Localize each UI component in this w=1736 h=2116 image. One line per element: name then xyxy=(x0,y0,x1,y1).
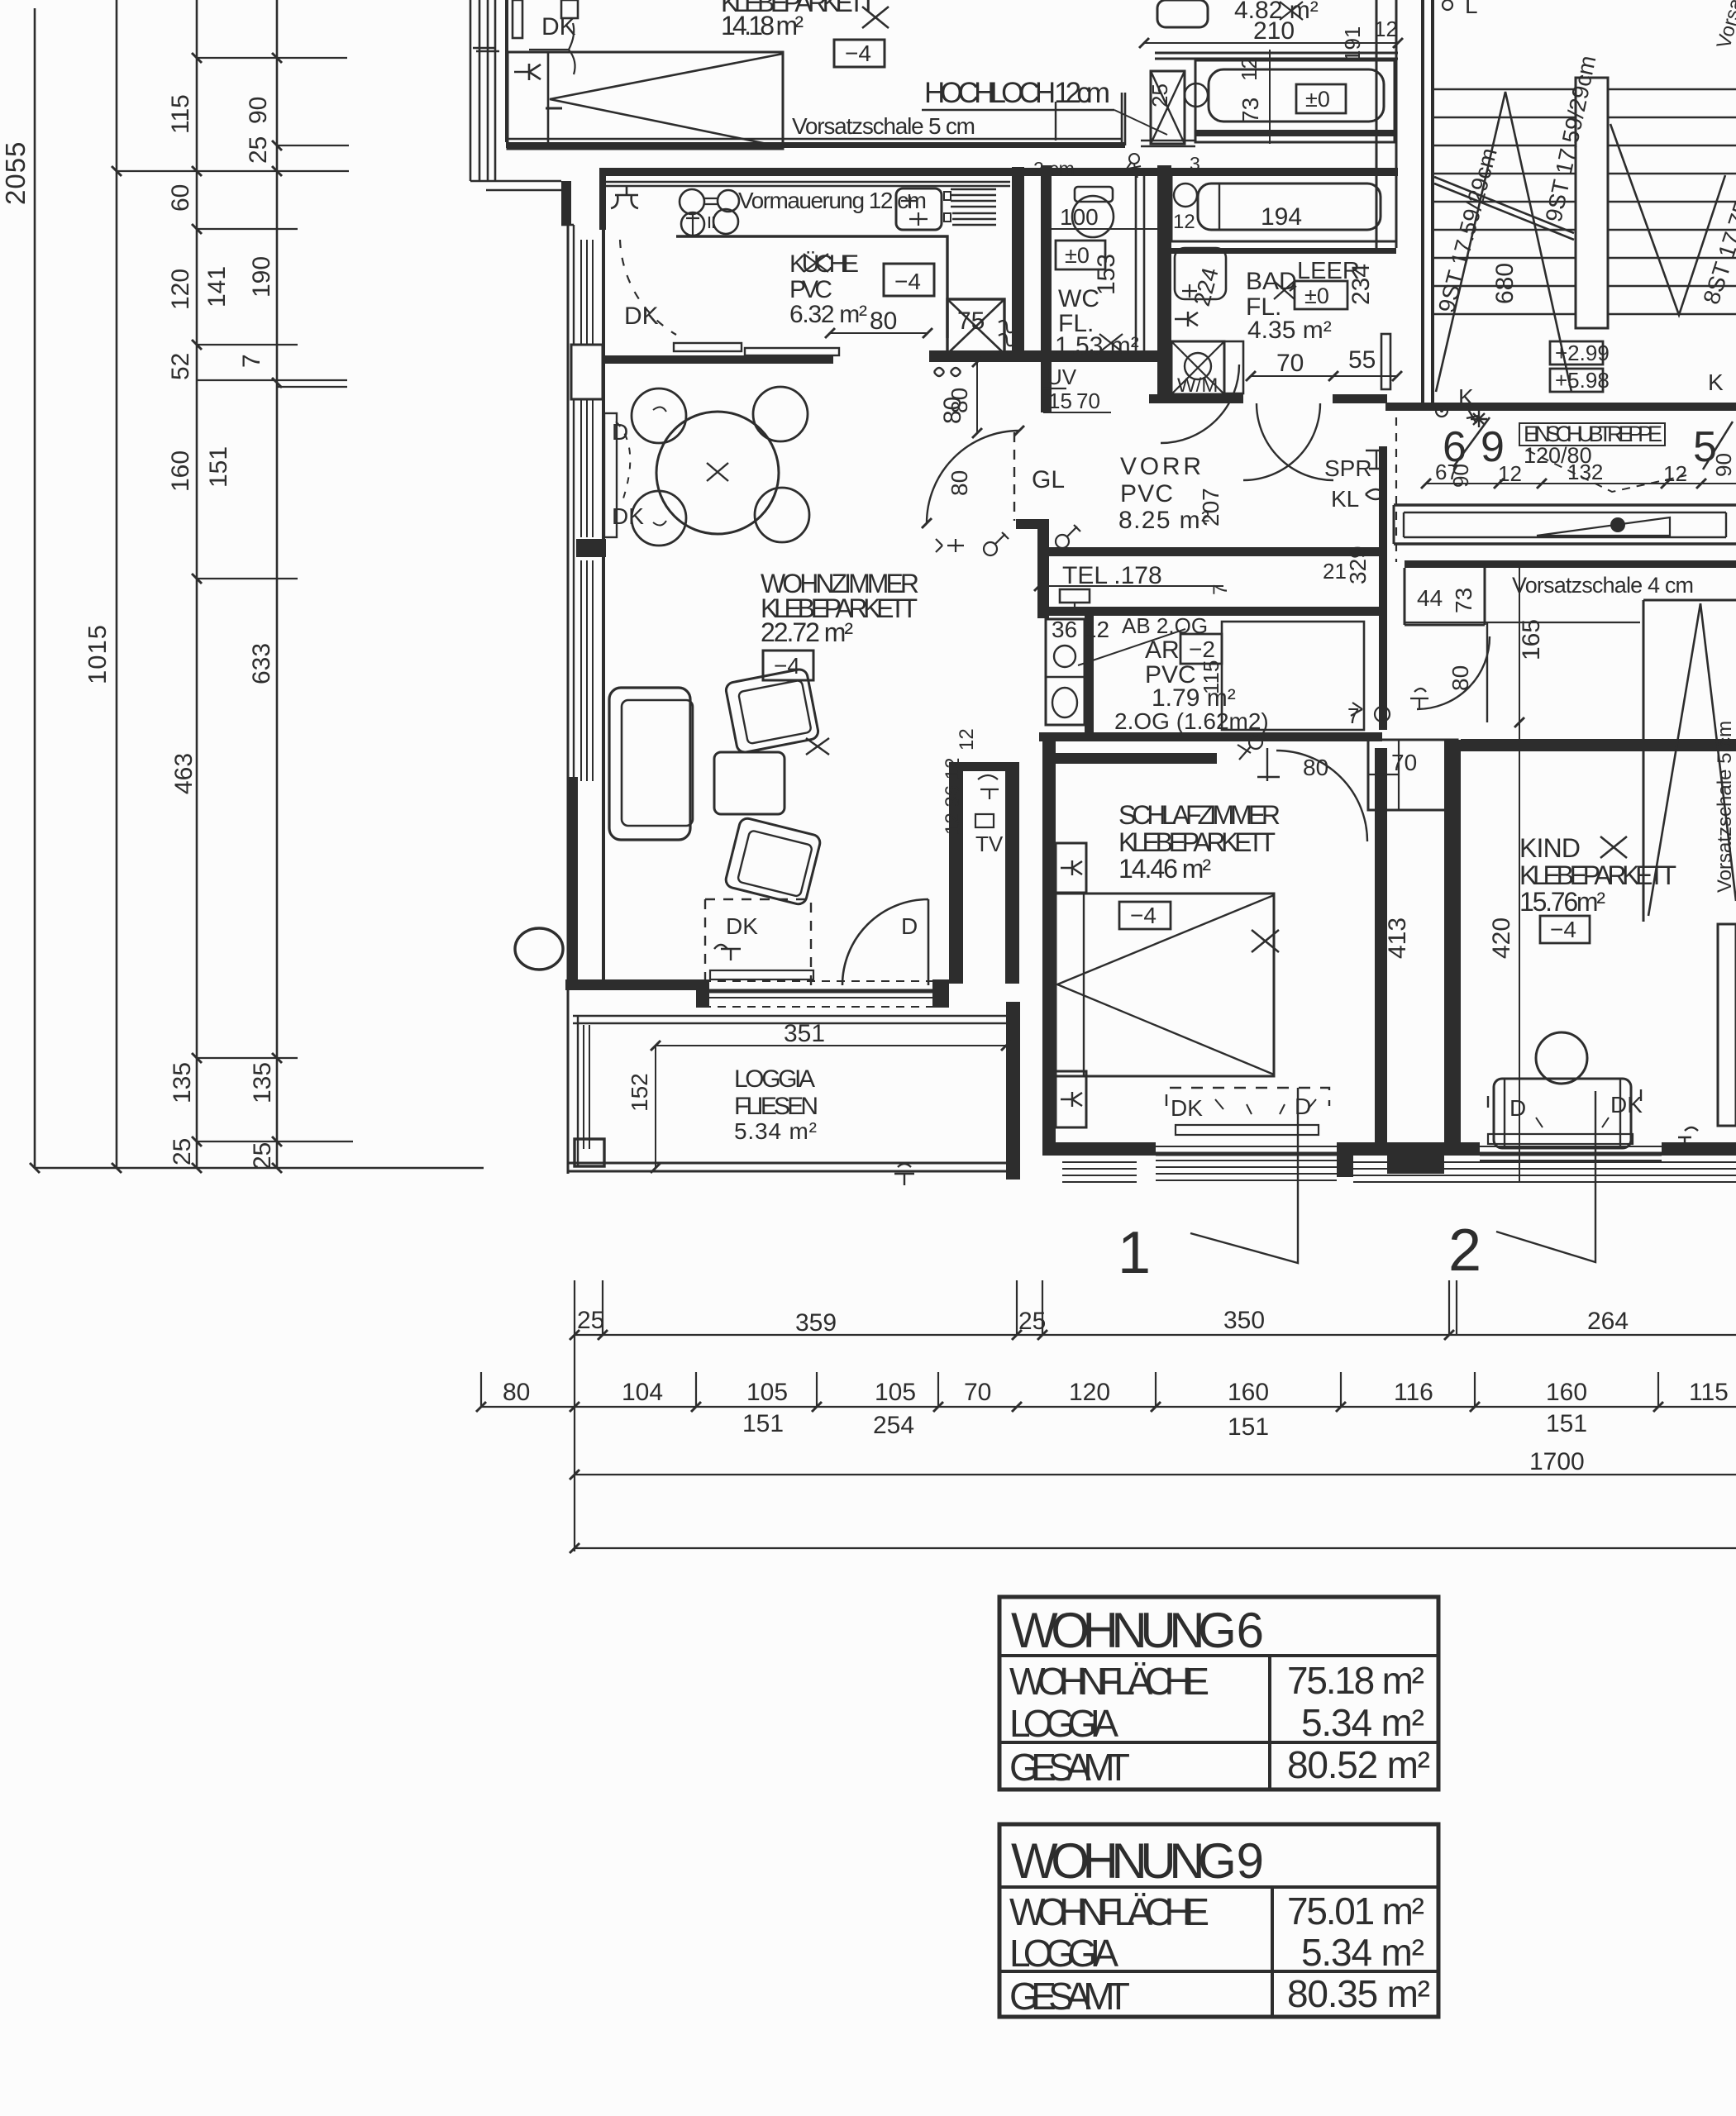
svg-text:25: 25 xyxy=(169,1138,196,1165)
svg-text:12: 12 xyxy=(1173,211,1195,233)
svg-text:160: 160 xyxy=(167,450,194,492)
row2 guide verticals xyxy=(481,1372,1658,1407)
svg-text:KIND: KIND xyxy=(1519,833,1581,863)
loggia left window xyxy=(584,1025,589,1149)
window glazing lower xyxy=(581,560,593,781)
svg-text:115: 115 xyxy=(1199,660,1223,694)
svg-text:DK: DK xyxy=(1610,1092,1643,1118)
X mark xyxy=(1252,930,1279,952)
svg-text:−4: −4 xyxy=(845,41,871,66)
svg-text:15.76m²: 15.76m² xyxy=(1519,887,1605,917)
svg-text:TV: TV xyxy=(975,832,1004,856)
svg-text:−2: −2 xyxy=(1189,636,1215,662)
radiator at window xyxy=(604,413,617,537)
taps xyxy=(1185,83,1208,107)
svg-text:350: 350 xyxy=(1223,1307,1265,1334)
armchair 1 xyxy=(725,668,820,754)
armchair 2 xyxy=(724,817,822,906)
K point left xyxy=(1436,405,1447,417)
svg-text:463: 463 xyxy=(170,753,198,794)
bed head line xyxy=(547,52,550,149)
svg-text:3: 3 xyxy=(1190,153,1200,174)
svg-text:SPR: SPR xyxy=(1324,455,1372,481)
svg-text:GESAMT: GESAMT xyxy=(1009,1975,1130,2018)
svg-text:1700: 1700 xyxy=(1529,1448,1585,1475)
corridor wall left xyxy=(1375,748,1387,1154)
G14 area tables xyxy=(999,1597,1438,2018)
tick row y176 xyxy=(277,145,349,146)
WC left wall xyxy=(1041,165,1052,412)
svg-text:K: K xyxy=(1708,369,1724,395)
wardrobe dashed DK xyxy=(705,899,811,985)
bottom walls xyxy=(1353,1142,1480,1156)
svg-text:207: 207 xyxy=(1198,488,1223,527)
G6 stairwell xyxy=(1385,0,1736,471)
svg-text:90: 90 xyxy=(245,97,272,124)
radiator below window xyxy=(710,970,813,979)
fork and circles xyxy=(1410,689,1428,708)
loggia top lines xyxy=(573,1016,1009,1023)
WM box xyxy=(1171,341,1224,394)
G7 VORR corridor and AR xyxy=(922,388,1382,741)
switch symbols xyxy=(984,542,997,555)
pier xyxy=(1337,1142,1353,1177)
svg-text:70: 70 xyxy=(964,1379,991,1406)
svg-text:7: 7 xyxy=(238,354,265,368)
wc door arc xyxy=(1161,365,1239,443)
stick figure at wall xyxy=(1129,154,1139,164)
outer left wall xyxy=(470,0,495,181)
left outer wall line xyxy=(567,223,570,1174)
dim line vert xyxy=(1519,568,1520,1182)
svg-text:12: 12 xyxy=(956,728,978,751)
svg-text:135: 135 xyxy=(249,1062,276,1103)
svg-text:1: 1 xyxy=(1118,1220,1151,1286)
svg-text:36 12: 36 12 xyxy=(1052,617,1109,642)
dining table xyxy=(656,412,779,534)
left jog wall xyxy=(561,181,571,225)
kitchen right wall xyxy=(1012,167,1024,362)
svg-text:7: 7 xyxy=(1347,703,1359,728)
svg-text:25: 25 xyxy=(1018,1308,1046,1335)
G10 SCHLAFZIMMER xyxy=(942,728,1367,1177)
svg-text:DK: DK xyxy=(541,13,576,41)
table WOHNUNG 9 xyxy=(999,1824,1438,2017)
loggia bottom band xyxy=(567,1163,1013,1171)
svg-text:D: D xyxy=(612,419,628,445)
svg-text:359: 359 xyxy=(795,1309,837,1337)
tick marks xyxy=(30,53,282,1173)
AR cells xyxy=(1046,619,1085,725)
svg-text:Vorsatzschale 4 cm: Vorsatzschale 4 cm xyxy=(1512,573,1694,598)
svg-text:80: 80 xyxy=(1303,755,1328,780)
svg-text:151: 151 xyxy=(742,1410,784,1437)
shaft walls xyxy=(949,771,963,984)
K fork bottom left xyxy=(894,1164,914,1185)
svg-text:−4: −4 xyxy=(1130,903,1157,928)
pm0 box xyxy=(1296,84,1346,113)
right V arrows xyxy=(1610,124,1725,315)
svg-text:80: 80 xyxy=(1447,665,1473,691)
smoke hooks xyxy=(999,321,1015,346)
meander step left xyxy=(1393,505,1395,544)
svg-text:80.35 m²: 80.35 m² xyxy=(1287,1972,1430,2015)
svg-text:DK: DK xyxy=(624,303,659,330)
svg-text:±0: ±0 xyxy=(1305,87,1330,112)
small rect top xyxy=(561,0,578,18)
washbasin xyxy=(1157,0,1208,27)
window dashed box xyxy=(1166,1088,1329,1106)
chair NE xyxy=(753,387,808,441)
G9 loggia xyxy=(567,1002,1020,1180)
chair SE xyxy=(755,488,809,542)
svg-text:DK: DK xyxy=(726,913,758,939)
svg-text:UV: UV xyxy=(1047,365,1077,389)
chain line inner xyxy=(276,0,279,1168)
bedroom bottom wall xyxy=(506,138,1123,140)
tick row y1280 xyxy=(197,1057,298,1059)
chair mark xyxy=(653,407,666,412)
G2 top-left apartment upper room xyxy=(470,0,1398,230)
svg-text:WC: WC xyxy=(1058,285,1099,312)
dashed leader xyxy=(1528,450,1686,492)
tick row y700 xyxy=(197,578,298,579)
bottom wall xyxy=(1042,1142,1156,1156)
svg-text:152: 152 xyxy=(627,1073,652,1112)
svg-text:75.18 m²: 75.18 m² xyxy=(1287,1659,1424,1702)
AR bottom wall xyxy=(1039,732,1382,741)
svg-text:22.72 m²: 22.72 m² xyxy=(761,617,853,647)
table WOHNUNG 6 xyxy=(999,1597,1438,1790)
kitchen top wall band xyxy=(601,168,1398,176)
vormauerung lining xyxy=(604,182,1010,186)
sink unit xyxy=(896,188,942,230)
dashed window xyxy=(1488,1089,1641,1108)
bottom line y1413 xyxy=(35,1167,484,1170)
mullion pier xyxy=(576,539,606,557)
bad door arcs xyxy=(1243,403,1320,480)
G12 right apartment mid xyxy=(1323,417,1736,1182)
schlaf left wall xyxy=(1042,736,1056,1154)
svg-text:55: 55 xyxy=(1348,346,1376,374)
tick row y207 xyxy=(117,170,349,172)
svg-text:151: 151 xyxy=(205,446,232,488)
svg-text:264: 264 xyxy=(1587,1308,1629,1335)
WC-BAD wall xyxy=(1157,165,1171,403)
svg-text:12: 12 xyxy=(1237,57,1261,81)
+2.99 box xyxy=(1550,341,1603,365)
svg-text:HOCHLOCH 12cm: HOCHLOCH 12cm xyxy=(924,77,1110,109)
svg-text:BAD: BAD xyxy=(1246,268,1297,295)
stair left wall xyxy=(1423,0,1433,407)
stair arrows left V xyxy=(1436,92,1571,392)
-4 box kitchen xyxy=(884,264,934,296)
shaft 25 with X xyxy=(1151,71,1185,144)
antenna symbol xyxy=(714,945,741,960)
chain line 2055 xyxy=(34,8,36,1168)
dim line vertical 80 xyxy=(976,362,978,433)
svg-text:73: 73 xyxy=(1451,588,1476,613)
svg-text:104: 104 xyxy=(622,1379,663,1406)
loggia right wall xyxy=(1006,1002,1020,1180)
pm0 box wc xyxy=(1056,241,1105,269)
svg-text:351: 351 xyxy=(784,1020,825,1047)
vorsatzschale4 wall xyxy=(1405,560,1736,568)
svg-text:420: 420 xyxy=(1488,917,1515,959)
svg-text:KLEBEPARKETT: KLEBEPARKETT xyxy=(1118,827,1276,857)
bed upper room xyxy=(508,52,783,149)
svg-text:−4: −4 xyxy=(1550,917,1576,942)
steps xyxy=(1434,89,1736,314)
svg-text:329: 329 xyxy=(1345,546,1371,584)
stair bottom wall xyxy=(1385,403,1736,411)
tub 194 xyxy=(1198,183,1381,230)
svg-text:115: 115 xyxy=(1689,1379,1729,1406)
kitchen bottom wall xyxy=(601,355,833,364)
handrail diagonal xyxy=(1434,177,1574,240)
svg-text:+2.99: +2.99 xyxy=(1555,341,1610,365)
row1 ticks xyxy=(570,1330,1454,1340)
svg-text:LOGGIA: LOGGIA xyxy=(734,1065,815,1093)
svg-text:80: 80 xyxy=(947,470,972,496)
svg-text:WOHNFLÄCHE: WOHNFLÄCHE xyxy=(1009,1890,1209,1933)
bottom wall left piece xyxy=(565,979,698,990)
door arc xyxy=(1417,636,1490,709)
AR top wall xyxy=(1039,607,1382,616)
window glazing upper xyxy=(581,240,593,345)
shower corner xyxy=(1175,248,1226,299)
GL door arc xyxy=(927,431,1019,523)
svg-text:413: 413 xyxy=(1384,917,1411,959)
svg-text:234: 234 xyxy=(1347,264,1375,305)
svg-text:5.34 m²: 5.34 m² xyxy=(734,1118,817,1144)
tick dash xyxy=(546,107,562,110)
G3 kitchen area xyxy=(601,167,1157,438)
svg-text:5.34 m²: 5.34 m² xyxy=(1301,1931,1424,1974)
landing rect xyxy=(1576,78,1608,328)
svg-text:D: D xyxy=(901,913,918,939)
svg-text:151: 151 xyxy=(1228,1413,1269,1441)
sofa xyxy=(609,688,690,840)
einschubtreppe housing xyxy=(1394,505,1736,544)
svg-text:2: 2 xyxy=(1448,1218,1481,1284)
svg-text:116: 116 xyxy=(1394,1379,1433,1406)
corner step wall xyxy=(470,181,561,190)
chair NW xyxy=(632,388,686,443)
svg-text:LOGGIA: LOGGIA xyxy=(1009,1932,1118,1975)
svg-text:1015: 1015 xyxy=(83,624,112,684)
tick row y463 double7 xyxy=(197,380,347,387)
left vertical main xyxy=(574,1335,575,1551)
G8 WOHNZIMMER living room xyxy=(515,223,949,1174)
K symbol xyxy=(514,64,541,80)
svg-text:73: 73 xyxy=(1238,98,1263,123)
AB closet xyxy=(1222,622,1364,730)
svg-text:Vorsatzschale 5 cm: Vorsatzschale 5 cm xyxy=(1714,721,1736,893)
svg-text:FLIESEN: FLIESEN xyxy=(734,1093,818,1120)
schlaf top wall xyxy=(1042,753,1217,764)
bad bottom walls xyxy=(1149,394,1243,403)
svg-text:L: L xyxy=(1465,0,1478,18)
svg-text:680: 680 xyxy=(1491,263,1519,304)
row4 line xyxy=(575,1547,1736,1549)
kitchen room outline xyxy=(676,236,947,338)
corridor wall right xyxy=(1444,740,1461,1154)
svg-text:WOHNFLÄCHE: WOHNFLÄCHE xyxy=(1009,1660,1209,1703)
coffee table xyxy=(714,752,785,814)
thin triangle xyxy=(1537,517,1670,536)
svg-text:75: 75 xyxy=(957,307,985,335)
svg-text:5.34 m²: 5.34 m² xyxy=(1301,1701,1424,1744)
toilet xyxy=(1072,196,1114,237)
svg-text:105: 105 xyxy=(746,1379,788,1406)
K symbol bad xyxy=(1175,312,1198,326)
right wall pair xyxy=(1376,0,1396,248)
dk leader xyxy=(529,23,575,74)
door arc to loggia xyxy=(842,899,928,985)
UF GS small boxes xyxy=(944,192,951,222)
tick row y70 xyxy=(197,57,347,59)
tap symbol left xyxy=(611,187,638,208)
svg-text:6.32 m²: 6.32 m² xyxy=(789,301,867,328)
svg-text:160: 160 xyxy=(1228,1379,1269,1406)
svg-text:LOGGIA: LOGGIA xyxy=(1009,1702,1118,1745)
svg-text:60: 60 xyxy=(167,184,194,212)
radiator xyxy=(1176,1125,1319,1135)
+5.98 box xyxy=(1550,369,1603,392)
svg-text:±0: ±0 xyxy=(1065,243,1090,268)
svg-text:25: 25 xyxy=(249,1142,276,1170)
lower loggia lines xyxy=(1062,1162,1137,1182)
wall junction block xyxy=(1387,1150,1444,1174)
triangle bed right xyxy=(1643,600,1736,922)
svg-text:25: 25 xyxy=(245,136,272,164)
vormauerung circles xyxy=(680,189,704,214)
chair SW xyxy=(632,491,686,546)
dishwasher stripes xyxy=(951,189,996,225)
-4 box xyxy=(1119,902,1171,929)
svg-text:151: 151 xyxy=(1546,1410,1587,1437)
svg-text:PVC: PVC xyxy=(789,276,832,303)
row1 line xyxy=(575,1334,1736,1336)
under tub wall xyxy=(1195,130,1395,136)
svg-text:80: 80 xyxy=(870,307,897,335)
K nub lower xyxy=(1056,1071,1086,1127)
svg-text:210: 210 xyxy=(1253,17,1295,45)
tick row y277 xyxy=(197,228,298,230)
BAD tub room border xyxy=(1171,174,1396,241)
G4 WC and BAD rooms xyxy=(1041,165,1402,480)
svg-text:2 cm: 2 cm xyxy=(1033,158,1075,179)
row2 line xyxy=(481,1406,1736,1408)
svg-text:100: 100 xyxy=(1060,204,1099,230)
piers xyxy=(696,979,709,1008)
svg-text:15: 15 xyxy=(1048,388,1072,413)
big circle column xyxy=(515,928,563,970)
svg-text:D: D xyxy=(1509,1095,1526,1121)
svg-text:115: 115 xyxy=(167,94,194,134)
svg-text:70: 70 xyxy=(1076,388,1100,413)
svg-text:±0: ±0 xyxy=(1304,284,1329,308)
svg-text:14.18 m²: 14.18 m² xyxy=(721,11,804,41)
door tick + figure xyxy=(1257,748,1280,781)
svg-text:1.53 m²: 1.53 m² xyxy=(1055,332,1139,360)
wall solid below windows xyxy=(568,777,578,990)
KIND top wall xyxy=(1461,739,1736,751)
flue box xyxy=(947,299,1004,354)
svg-text:194: 194 xyxy=(1261,203,1302,231)
hochloch leader xyxy=(1114,110,1167,135)
svg-text:141: 141 xyxy=(203,266,231,307)
star tick xyxy=(1471,411,1487,427)
wardrobe xyxy=(1368,740,1457,810)
svg-text:W/M: W/M xyxy=(1177,374,1218,397)
kitchen door dashed xyxy=(620,240,676,335)
svg-text:K: K xyxy=(1458,384,1474,410)
radiator right xyxy=(1381,334,1390,389)
svg-text:80: 80 xyxy=(947,388,972,413)
svg-text:Vorsatzschale 5 cm: Vorsatzschale 5 cm xyxy=(792,113,975,139)
corner post xyxy=(575,1139,604,1166)
svg-text:191: 191 xyxy=(1340,26,1365,62)
-4 box xyxy=(763,651,813,680)
K symbol right xyxy=(1678,1127,1698,1146)
dashed swing xyxy=(616,422,630,501)
svg-text:7: 7 xyxy=(1209,584,1232,595)
svg-text:254: 254 xyxy=(873,1412,914,1439)
G13 bottom dimension block xyxy=(476,1280,1736,1553)
counter pieces xyxy=(674,343,742,351)
svg-text:80: 80 xyxy=(503,1379,530,1406)
upper wall lines xyxy=(1155,53,1398,59)
G11 corridor walls and KIND xyxy=(894,739,1736,1286)
svg-text:190: 190 xyxy=(248,256,275,298)
x mark xyxy=(862,7,889,28)
wall under flue xyxy=(929,350,1157,362)
window strip xyxy=(1480,1146,1662,1147)
corridor right wall xyxy=(1379,446,1387,730)
tub surround xyxy=(1195,60,1395,142)
WC bottom wall xyxy=(1041,350,1157,362)
WC right thin wall xyxy=(1136,175,1144,350)
tick row y417 xyxy=(197,344,298,346)
svg-text:70: 70 xyxy=(1391,750,1417,775)
TV outlet xyxy=(978,775,999,799)
radiator xyxy=(1488,1134,1633,1144)
44 closet xyxy=(1405,568,1485,625)
svg-text:120: 120 xyxy=(167,269,194,310)
tub xyxy=(1209,69,1384,122)
vent symbols xyxy=(934,368,961,376)
window strip xyxy=(1156,1146,1337,1147)
svg-text:25: 25 xyxy=(577,1307,604,1334)
svg-text:WOHNUNG 6: WOHNUNG 6 xyxy=(1011,1603,1264,1658)
svg-text:90: 90 xyxy=(1711,453,1736,477)
svg-text:14.46 m²: 14.46 m² xyxy=(1118,854,1211,884)
svg-text:KÜCHE: KÜCHE xyxy=(789,250,859,278)
svg-text:4.35 m²: 4.35 m² xyxy=(1247,317,1332,344)
bed xyxy=(1056,894,1274,1076)
-4 box xyxy=(1540,916,1590,943)
K nub upper xyxy=(1056,843,1086,893)
svg-text:PVC: PVC xyxy=(1120,480,1173,508)
svg-text:135: 135 xyxy=(169,1062,196,1103)
svg-text:12 36 12: 12 36 12 xyxy=(942,758,964,835)
sprinkler symbol xyxy=(1366,450,1387,469)
wall jog below GL xyxy=(1016,519,1049,529)
svg-text:70: 70 xyxy=(1276,350,1304,377)
svg-text:21: 21 xyxy=(1323,559,1347,584)
